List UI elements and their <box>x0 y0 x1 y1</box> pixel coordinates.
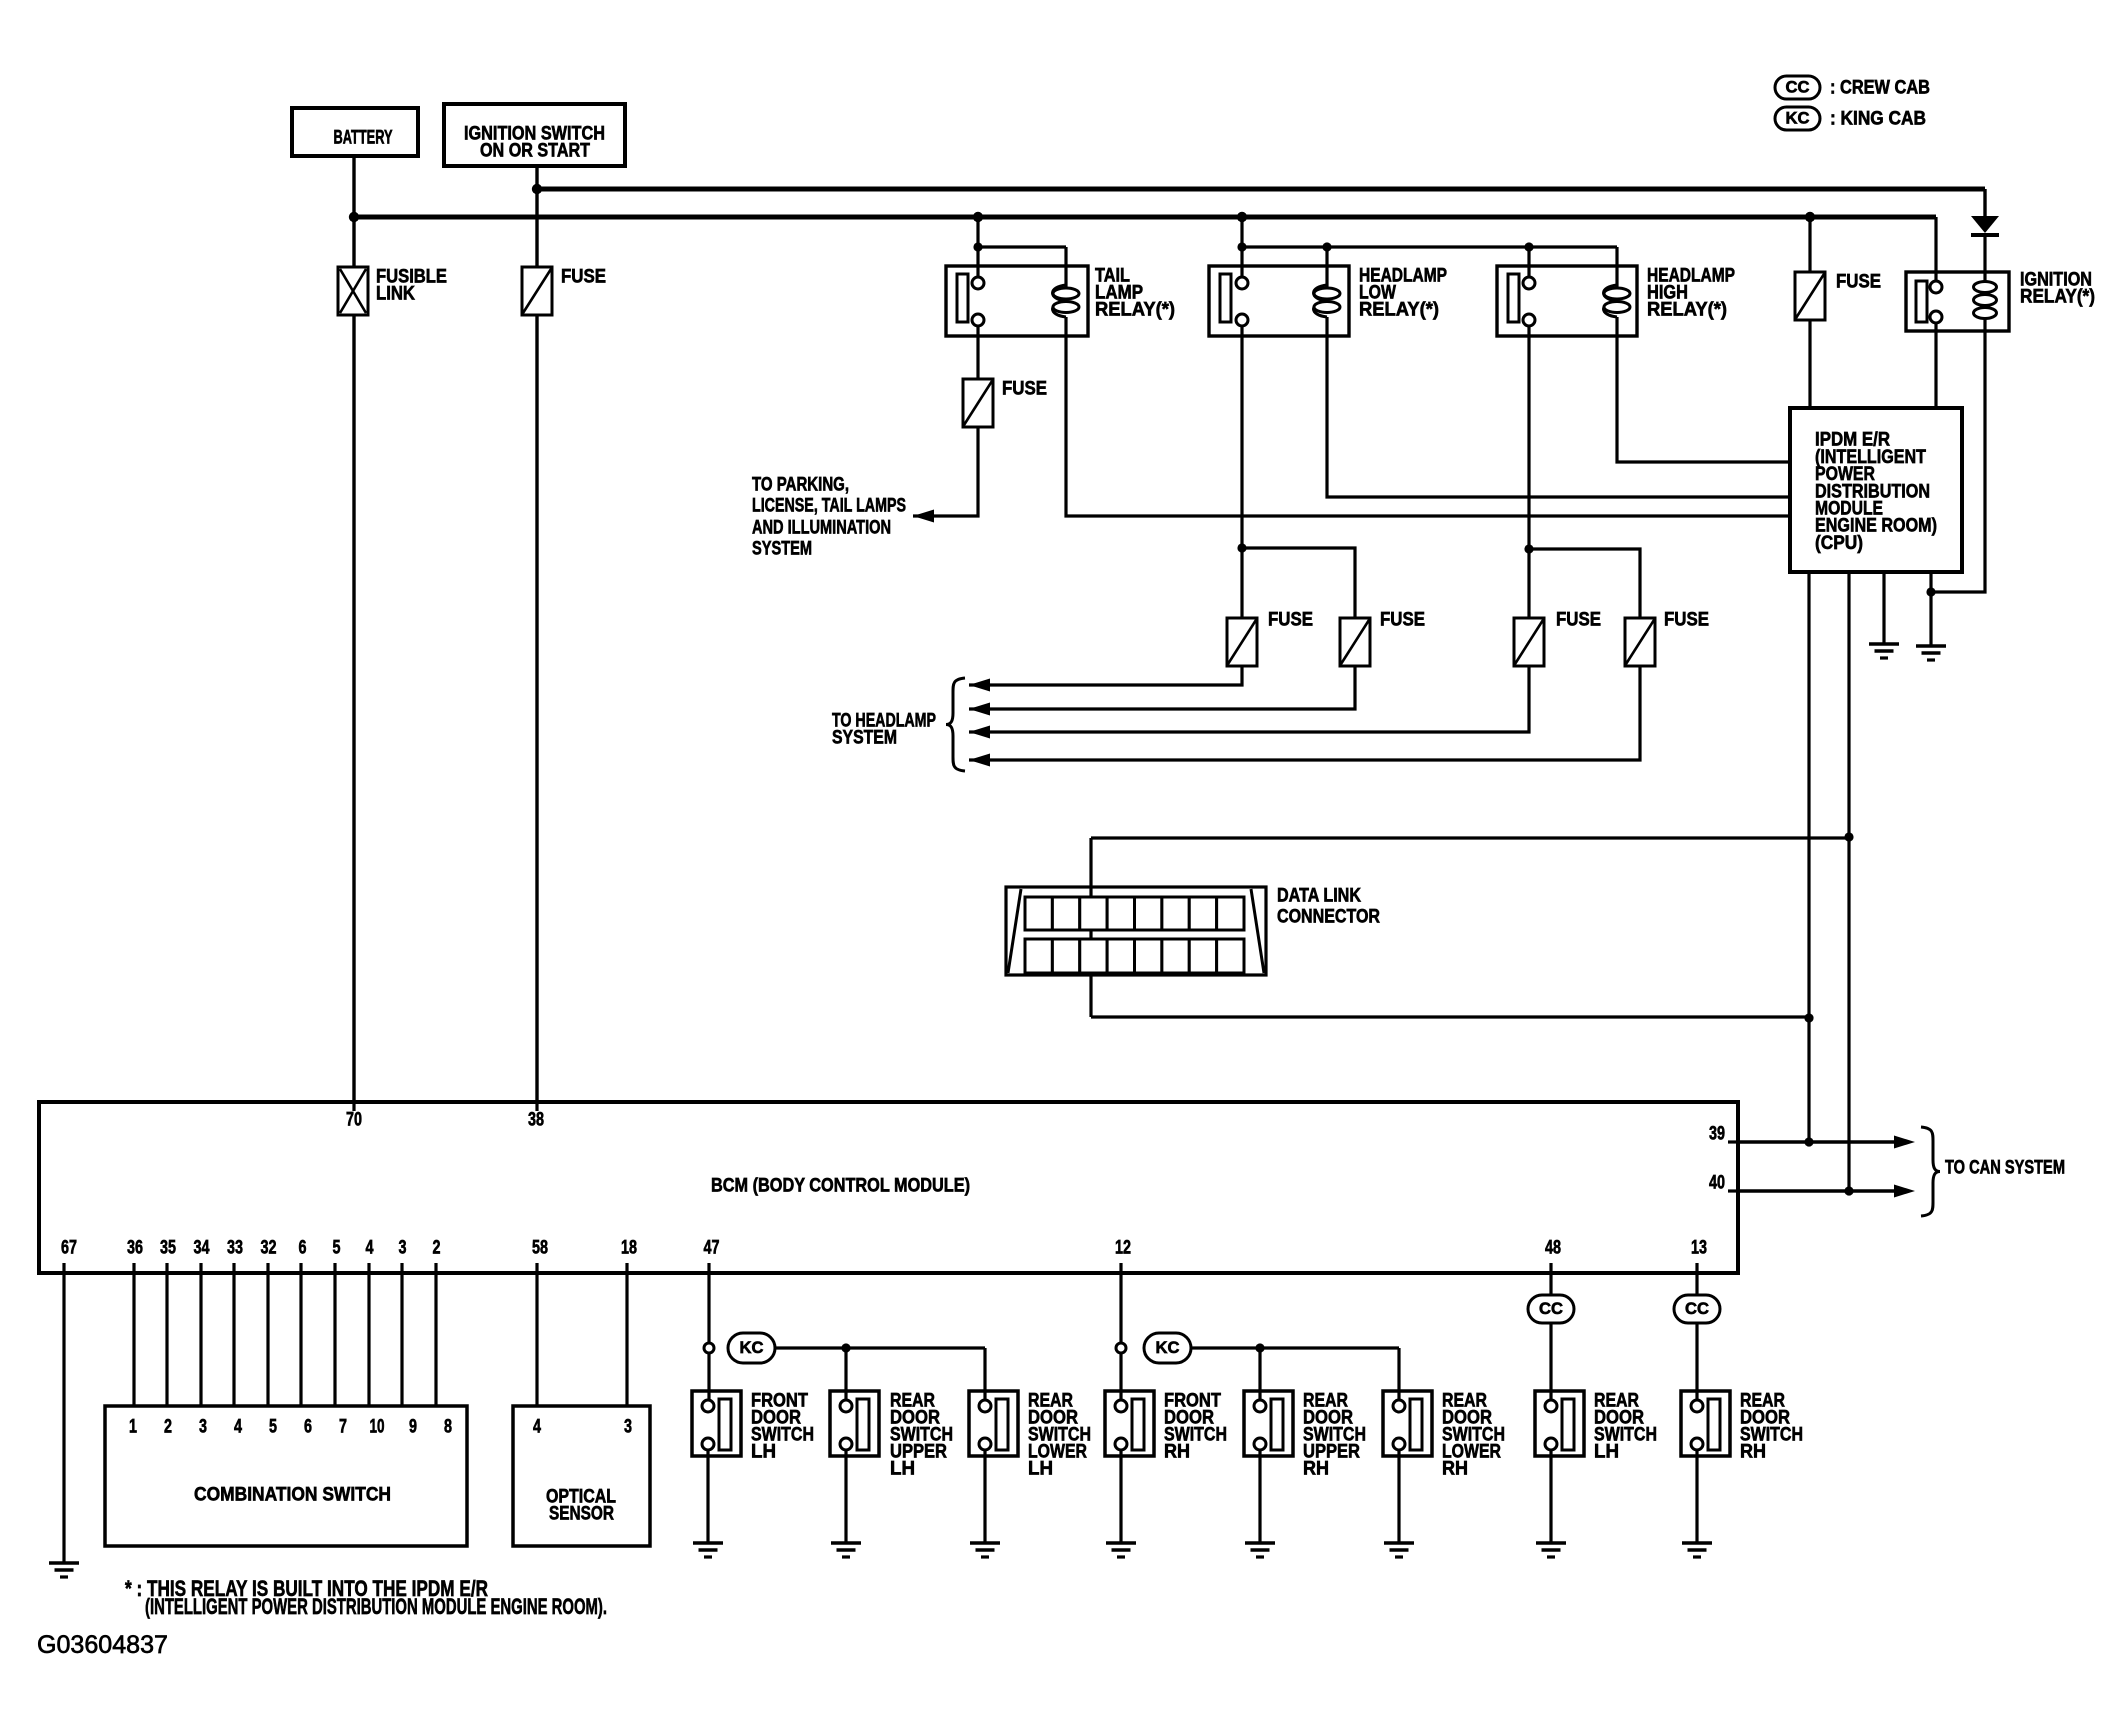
svg-text:12: 12 <box>1115 1238 1131 1259</box>
svg-text:3: 3 <box>199 1417 207 1438</box>
svg-text:5: 5 <box>269 1417 277 1438</box>
svg-text:CC: CC <box>1786 78 1810 97</box>
svg-text:COMBINATION SWITCH: COMBINATION SWITCH <box>194 1485 391 1506</box>
svg-text:SYSTEM: SYSTEM <box>752 539 812 560</box>
svg-text:ON OR START: ON OR START <box>480 141 590 162</box>
svg-text:32: 32 <box>261 1238 277 1259</box>
svg-text:RELAY(*): RELAY(*) <box>1359 300 1439 321</box>
svg-text:10: 10 <box>370 1417 385 1438</box>
svg-text:4: 4 <box>234 1417 242 1438</box>
svg-text:FUSE: FUSE <box>1836 272 1881 293</box>
svg-text:CONNECTOR: CONNECTOR <box>1277 907 1380 928</box>
svg-text:4: 4 <box>366 1238 374 1259</box>
svg-text:3: 3 <box>624 1417 632 1438</box>
svg-text:FUSE: FUSE <box>1380 610 1425 631</box>
svg-text:18: 18 <box>621 1238 637 1259</box>
svg-text:6: 6 <box>304 1417 312 1438</box>
svg-text:CC: CC <box>1685 1299 1709 1318</box>
svg-text:6: 6 <box>299 1238 307 1259</box>
svg-text:TO PARKING,: TO PARKING, <box>752 475 849 496</box>
svg-text:8: 8 <box>444 1417 452 1438</box>
svg-text:LH: LH <box>1028 1459 1053 1480</box>
svg-text:RH: RH <box>1164 1442 1190 1463</box>
svg-text:: KING CAB: : KING CAB <box>1830 109 1926 130</box>
svg-text:LH: LH <box>751 1442 776 1463</box>
svg-text:33: 33 <box>227 1238 243 1259</box>
svg-text:SYSTEM: SYSTEM <box>832 728 897 749</box>
svg-text:70: 70 <box>346 1110 362 1131</box>
svg-text:3: 3 <box>399 1238 407 1259</box>
svg-text:CC: CC <box>1539 1299 1563 1318</box>
svg-text:LH: LH <box>1594 1442 1619 1463</box>
svg-text:34: 34 <box>194 1238 210 1259</box>
svg-text:58: 58 <box>532 1238 548 1259</box>
svg-text:KC: KC <box>1786 109 1810 128</box>
svg-text:36: 36 <box>127 1238 143 1259</box>
svg-text:TO CAN SYSTEM: TO CAN SYSTEM <box>1945 1158 2065 1179</box>
svg-text:RH: RH <box>1303 1459 1329 1480</box>
svg-text:2: 2 <box>164 1417 172 1438</box>
svg-text:SENSOR: SENSOR <box>549 1504 614 1525</box>
svg-text:FUSE: FUSE <box>1556 610 1601 631</box>
svg-text:7: 7 <box>339 1417 347 1438</box>
svg-text:G03604837: G03604837 <box>37 1631 168 1659</box>
svg-text:DATA LINK: DATA LINK <box>1277 886 1361 907</box>
svg-text:FUSE: FUSE <box>561 267 606 288</box>
svg-text:(INTELLIGENT POWER DISTRIBUTIO: (INTELLIGENT POWER DISTRIBUTION MODULE E… <box>145 1594 607 1619</box>
svg-text:47: 47 <box>704 1238 720 1259</box>
svg-text:FUSE: FUSE <box>1268 610 1313 631</box>
svg-text:LH: LH <box>890 1459 915 1480</box>
svg-text:RELAY(*): RELAY(*) <box>2020 287 2095 308</box>
svg-text:2: 2 <box>433 1238 441 1259</box>
svg-text:KC: KC <box>740 1338 764 1357</box>
svg-text:39: 39 <box>1709 1124 1725 1145</box>
svg-text:LICENSE, TAIL LAMPS: LICENSE, TAIL LAMPS <box>752 496 906 517</box>
svg-text:40: 40 <box>1709 1173 1725 1194</box>
svg-text:BCM (BODY CONTROL MODULE): BCM (BODY CONTROL MODULE) <box>711 1176 970 1197</box>
svg-text:AND ILLUMINATION: AND ILLUMINATION <box>752 518 891 539</box>
svg-text:5: 5 <box>333 1238 341 1259</box>
svg-text:RH: RH <box>1740 1442 1766 1463</box>
svg-text:BATTERY: BATTERY <box>334 128 393 149</box>
svg-text:FUSE: FUSE <box>1664 610 1709 631</box>
svg-text:67: 67 <box>61 1238 77 1259</box>
svg-text:13: 13 <box>1691 1238 1707 1259</box>
svg-text:35: 35 <box>160 1238 176 1259</box>
svg-text:RH: RH <box>1442 1459 1468 1480</box>
svg-text:48: 48 <box>1545 1238 1561 1259</box>
svg-text:RELAY(*): RELAY(*) <box>1647 300 1727 321</box>
svg-text:FUSE: FUSE <box>1002 379 1047 400</box>
svg-text:38: 38 <box>528 1110 544 1131</box>
svg-text:4: 4 <box>533 1417 541 1438</box>
svg-text:9: 9 <box>409 1417 417 1438</box>
svg-text:KC: KC <box>1156 1338 1180 1357</box>
svg-text:: CREW CAB: : CREW CAB <box>1830 78 1930 99</box>
svg-text:LINK: LINK <box>376 284 415 305</box>
svg-text:RELAY(*): RELAY(*) <box>1095 300 1175 321</box>
svg-text:1: 1 <box>129 1417 137 1438</box>
svg-text:(CPU): (CPU) <box>1815 533 1863 554</box>
